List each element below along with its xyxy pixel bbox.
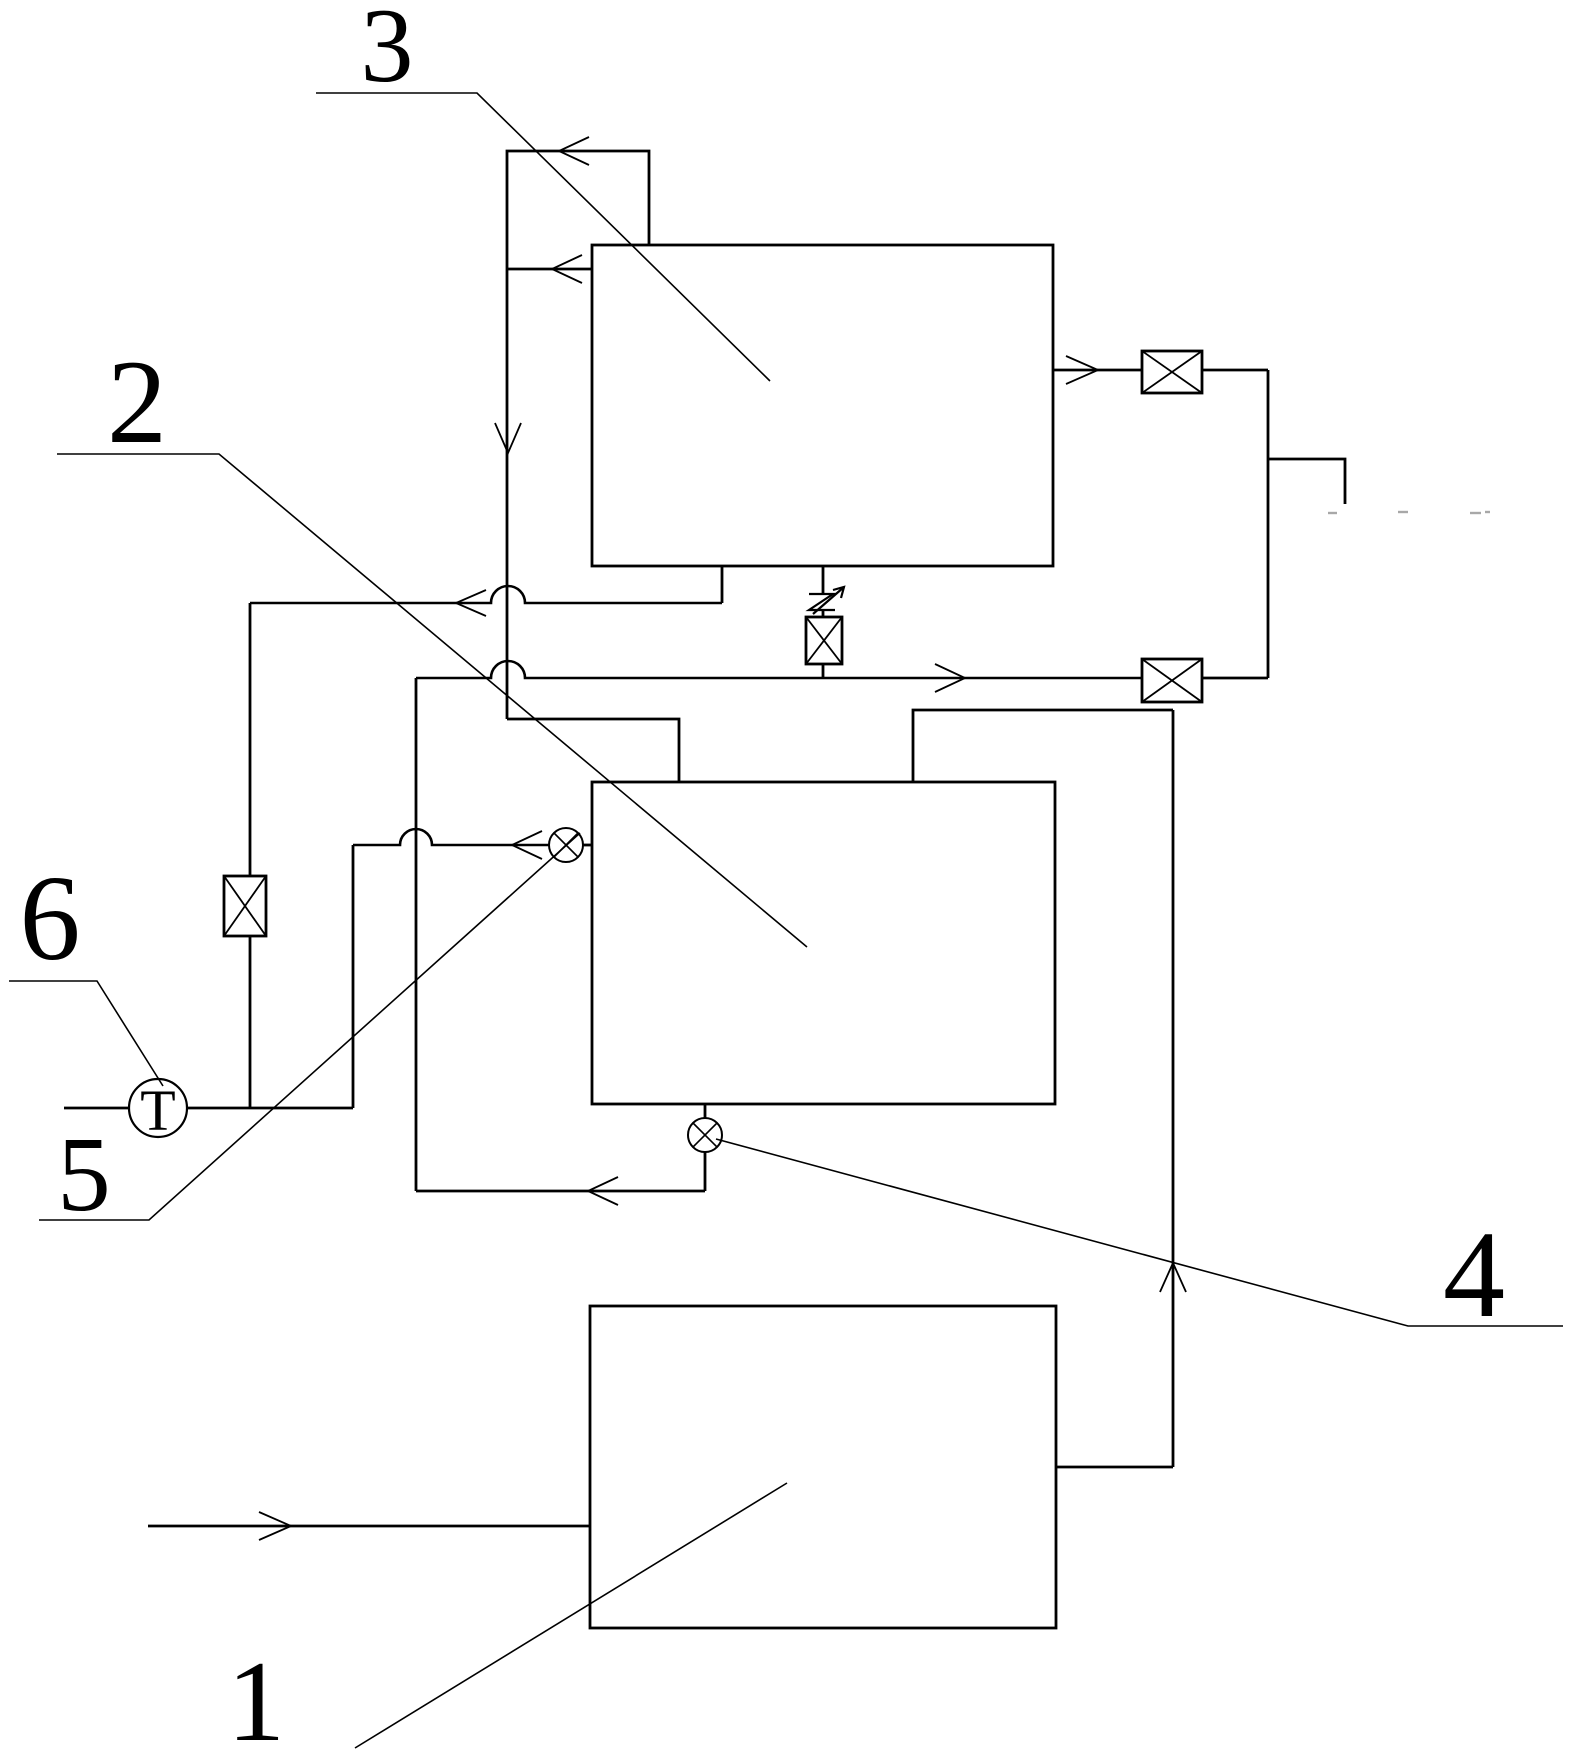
svg-text:2: 2 <box>107 335 167 468</box>
wire: top box outlet to valve V1 <box>1053 369 1142 372</box>
valve V2 (gate valve) <box>1142 659 1202 702</box>
wire: valve V3 down to tee <box>249 936 252 1108</box>
svg-text:3: 3 <box>361 0 414 104</box>
wire: stub into top box left edge <box>507 268 592 271</box>
svg-text:T: T <box>140 1078 175 1143</box>
wire: feed elbow into middle box <box>507 719 679 782</box>
leader line 1 <box>355 1483 787 1748</box>
wire: sensor line left segment <box>64 1107 129 1110</box>
wire: sensor line right segment <box>187 1107 353 1110</box>
leader line 5 <box>39 833 580 1220</box>
wire: riser to bottom box <box>1056 1466 1173 1469</box>
wire: outlet stub to open end <box>1268 459 1345 504</box>
wire: valve V2 to right riser foot <box>1202 677 1268 680</box>
control valve CV2 (circle) <box>688 1118 722 1152</box>
valve V1 (gate valve) <box>1142 351 1202 393</box>
control valve CV1 (circle) <box>549 828 583 862</box>
wire: side branch drop <box>352 845 355 1108</box>
valve V4 (relief valve) <box>806 617 842 664</box>
heat-recovery small box (top) <box>507 151 649 245</box>
svg-text:5: 5 <box>57 1116 111 1234</box>
arrow left on return line <box>456 590 486 616</box>
middle box (unit 2) <box>592 782 1055 1104</box>
arrow right on outlet <box>1066 356 1098 384</box>
arrow left on stub <box>552 255 582 283</box>
valve V3 (gate valve) <box>224 876 266 936</box>
svg-text:4: 4 <box>1443 1206 1505 1343</box>
bottom box (unit 1) <box>590 1306 1056 1628</box>
wire: valve V4 to recirculation line <box>822 664 825 678</box>
wire: left recirculation drop <box>415 678 418 1191</box>
wire: bottom recirculation run <box>416 1190 705 1193</box>
arrow left on bottom run <box>588 1177 618 1205</box>
svg-text:6: 6 <box>20 851 81 986</box>
arrow up on right riser <box>1160 1263 1186 1292</box>
wire: horizontal return line with hop over left vertical <box>250 586 722 603</box>
arrow left on side branch <box>512 831 542 859</box>
wire: left drop to valve V3 <box>249 603 252 876</box>
relief actuator Z symbol <box>809 587 844 614</box>
arrow on small box top edge <box>559 137 589 165</box>
wire: middle box bottom stub <box>704 1104 707 1118</box>
wire: Z symbol to valve V4 <box>822 610 825 617</box>
svg-text:1: 1 <box>227 1638 285 1757</box>
wire: middle box top right connection <box>913 710 1173 782</box>
leader line 2 <box>57 454 807 947</box>
wire: valve CV2 to bottom run <box>704 1152 707 1191</box>
temperature sensor T (circle) <box>129 1079 187 1137</box>
wire: side branch with hop to valve CV1 <box>353 829 549 845</box>
wire: recirculation line with hop <box>416 661 1142 678</box>
wire: right long riser <box>1172 710 1175 1467</box>
wire: right riser down <box>1267 370 1270 678</box>
top box (unit 3) <box>592 245 1053 566</box>
wire: valve CV1 to middle box <box>583 844 592 847</box>
arrow right on inlet <box>259 1512 291 1540</box>
wire: drop from top box to relief valve <box>822 566 825 594</box>
wire: step from top box bottom <box>721 566 724 603</box>
arrow down on left vertical <box>495 423 521 453</box>
leader line 6 <box>9 981 163 1086</box>
wire: valve V1 to right riser <box>1202 369 1268 372</box>
faint continuation dashes <box>1328 512 1490 513</box>
leader line 3 <box>316 93 770 381</box>
arrow right on recirculation line <box>935 664 965 692</box>
wire: inlet line <box>148 1525 590 1528</box>
leader line 4 <box>716 1139 1563 1326</box>
wire: left vertical from small box <box>506 245 509 719</box>
